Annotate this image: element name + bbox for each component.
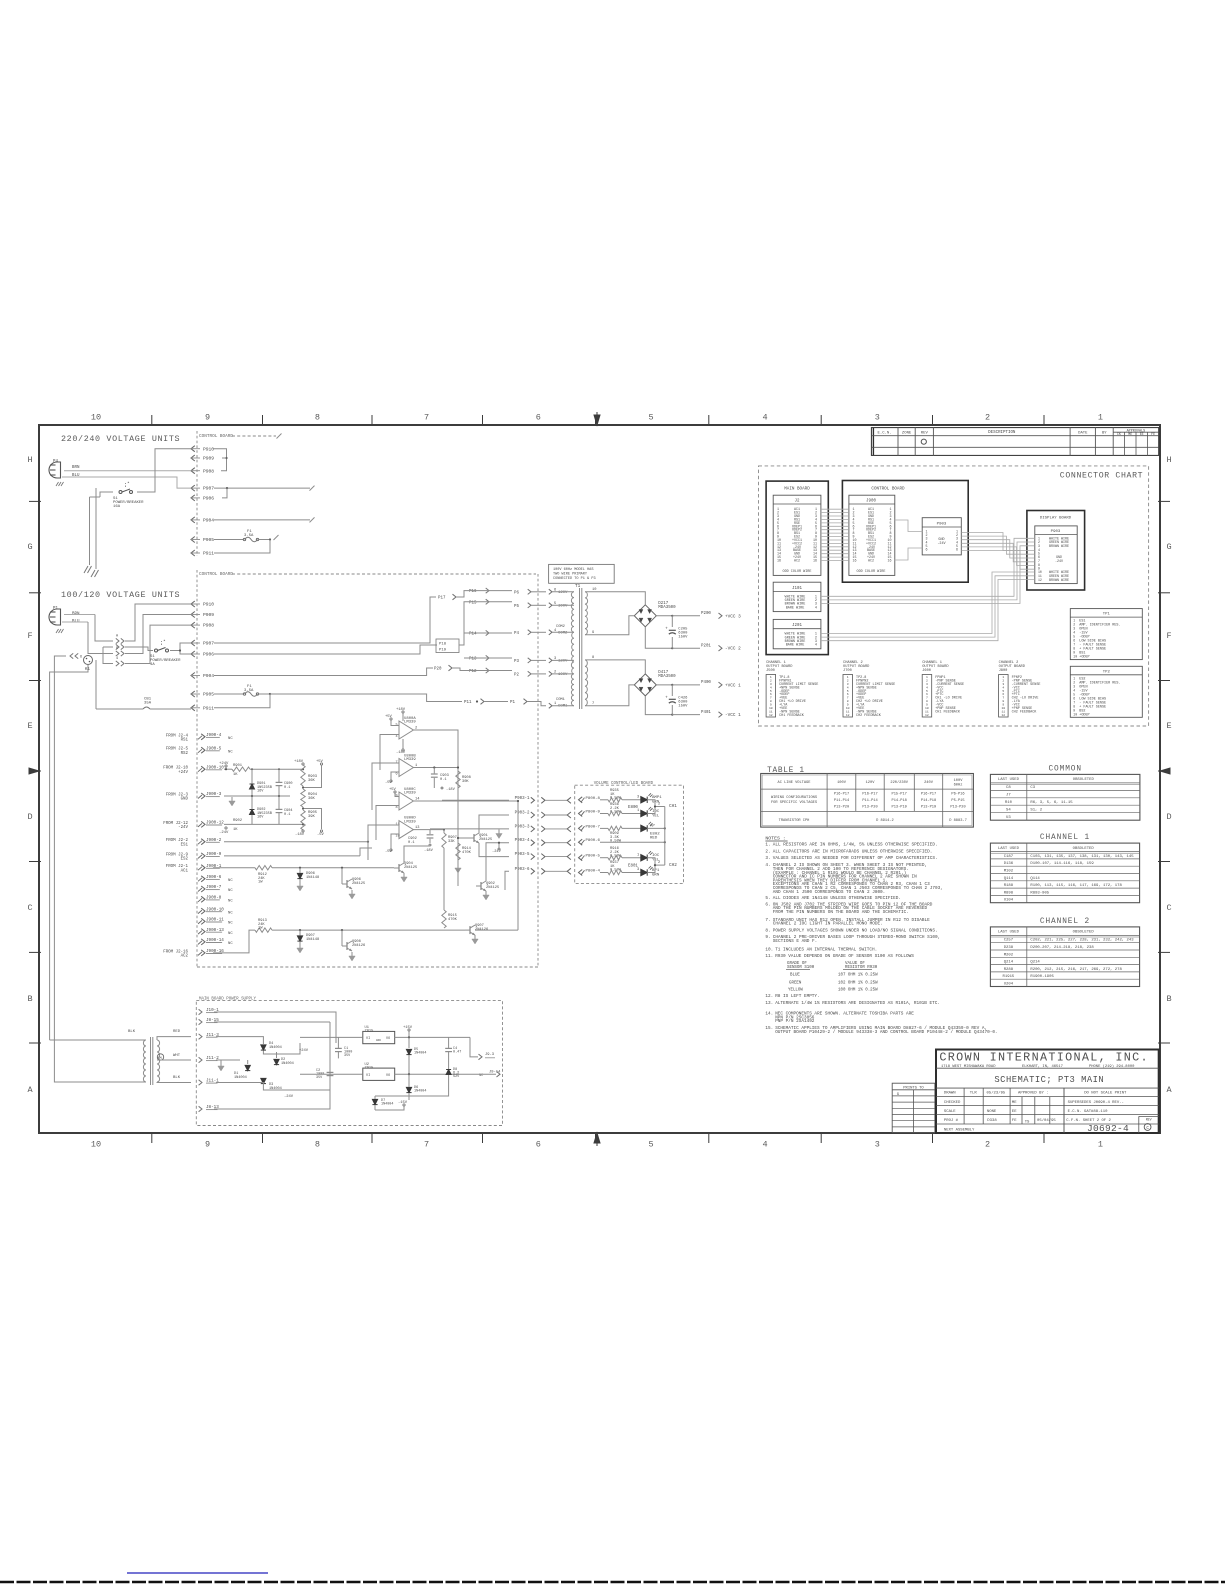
svg-text:GND: GND bbox=[181, 798, 189, 802]
svg-text:P13-P20: P13-P20 bbox=[862, 805, 877, 809]
svg-text:2N4125: 2N4125 bbox=[486, 886, 499, 890]
svg-text:CH1: CH1 bbox=[669, 804, 677, 809]
svg-text:AC LINE VOLTAGE: AC LINE VOLTAGE bbox=[778, 781, 811, 785]
svg-text:3: 3 bbox=[875, 1140, 880, 1150]
svg-text:3: 3 bbox=[637, 796, 639, 800]
svg-text:C: C bbox=[27, 903, 32, 913]
svg-text:LM339: LM339 bbox=[404, 721, 416, 725]
svg-text:35A: 35A bbox=[144, 702, 152, 706]
svg-text:APPROVED BY :: APPROVED BY : bbox=[1018, 1092, 1048, 1096]
svg-text:P907: P907 bbox=[203, 641, 214, 647]
svg-text:M102: M102 bbox=[1004, 870, 1014, 874]
svg-text:7: 7 bbox=[592, 702, 594, 706]
svg-text:YEL: YEL bbox=[652, 815, 660, 819]
svg-text:P13-P19: P13-P19 bbox=[892, 805, 907, 809]
svg-text:REV: REV bbox=[1146, 1118, 1152, 1122]
svg-text:ALTERNATE 1/4W 1% RESISTORS AR: ALTERNATE 1/4W 1% RESISTORS ARE DESIGNAT… bbox=[775, 1001, 940, 1006]
svg-text:G: G bbox=[1166, 542, 1171, 552]
svg-text:1N4004: 1N4004 bbox=[281, 1062, 294, 1066]
svg-text:+24V: +24V bbox=[219, 762, 229, 766]
svg-text:8: 8 bbox=[315, 1140, 320, 1150]
svg-text:R100, 113, 115, 116, 117, 169,: R100, 113, 115, 116, 117, 169, 172, 178 bbox=[1030, 884, 1122, 888]
svg-text:35V: 35V bbox=[344, 1054, 351, 1058]
svg-text:CROWN INTERNATIONAL, INC.: CROWN INTERNATIONAL, INC. bbox=[939, 1051, 1148, 1065]
svg-text:TP1: TP1 bbox=[1103, 613, 1111, 617]
svg-text:VO: VO bbox=[386, 1037, 390, 1041]
svg-text:G: G bbox=[27, 542, 32, 552]
svg-text:16A: 16A bbox=[113, 505, 121, 509]
svg-text:+ODEP: +ODEP bbox=[1079, 713, 1089, 717]
svg-text:1N4148: 1N4148 bbox=[306, 876, 319, 880]
svg-text:12: 12 bbox=[925, 713, 929, 717]
svg-text:P16-P17: P16-P17 bbox=[921, 793, 936, 797]
svg-text:D 8914-2: D 8914-2 bbox=[876, 819, 894, 823]
svg-text:LAST USED: LAST USED bbox=[998, 931, 1020, 935]
svg-text:P20: P20 bbox=[434, 668, 442, 672]
svg-text:BARE WIRE: BARE WIRE bbox=[786, 606, 805, 610]
svg-text:WIRING CONFIGURATIONS: WIRING CONFIGURATIONS bbox=[771, 796, 818, 800]
svg-text:33K: 33K bbox=[448, 840, 455, 844]
svg-text:T1 INCLUDES AN INTERNAL THERMA: T1 INCLUDES AN INTERNAL THERMAL SWITCH. bbox=[775, 948, 877, 953]
svg-text:ES1: ES1 bbox=[181, 843, 189, 847]
svg-text:P17: P17 bbox=[438, 597, 446, 601]
svg-text:100 OHM 1% 0.25W: 100 OHM 1% 0.25W bbox=[838, 989, 878, 993]
svg-text:1: 1 bbox=[1098, 1140, 1103, 1150]
svg-text:U204: U204 bbox=[1004, 983, 1014, 987]
svg-text:VOLUME CONTROL/LED BOARD: VOLUME CONTROL/LED BOARD bbox=[594, 781, 654, 786]
svg-text:1: 1 bbox=[1098, 413, 1103, 423]
svg-text:SUPERSEDES J0690-4 REV.-: SUPERSEDES J0690-4 REV.- bbox=[1068, 1101, 1124, 1105]
svg-text:P2: P2 bbox=[514, 673, 519, 677]
svg-text:P6: P6 bbox=[514, 591, 519, 595]
svg-text:36K: 36K bbox=[308, 779, 316, 783]
svg-text:150V: 150V bbox=[678, 636, 688, 640]
svg-text:P16-P17: P16-P17 bbox=[834, 793, 849, 797]
svg-text:E: E bbox=[27, 721, 32, 731]
svg-text:D200-207, 214-218, 218, 238: D200-207, 214-218, 218, 238 bbox=[1030, 946, 1094, 950]
svg-text:SCALE: SCALE bbox=[944, 1110, 956, 1114]
svg-text:P904: P904 bbox=[203, 673, 214, 679]
svg-text:+VCC 3: +VCC 3 bbox=[725, 614, 741, 619]
svg-text:BROWN WIRE: BROWN WIRE bbox=[1049, 578, 1069, 582]
svg-text:120V: 120V bbox=[866, 781, 876, 785]
svg-text:12: 12 bbox=[769, 713, 773, 717]
svg-text:-24V: -24V bbox=[178, 826, 188, 830]
svg-text:35V: 35V bbox=[316, 1076, 323, 1080]
svg-text:CH1 FEEDBACK: CH1 FEEDBACK bbox=[779, 714, 805, 718]
svg-text:BLK: BLK bbox=[173, 1076, 181, 1080]
svg-text:-5V: -5V bbox=[317, 833, 325, 837]
svg-text:*: * bbox=[127, 481, 130, 487]
svg-text:Q214: Q214 bbox=[1030, 961, 1040, 965]
svg-text:P903-3: P903-3 bbox=[515, 825, 530, 829]
svg-text:P16-P17: P16-P17 bbox=[862, 793, 877, 797]
svg-text:CHANNEL 2: CHANNEL 2 bbox=[1040, 918, 1090, 926]
svg-text:3.: 3. bbox=[765, 856, 770, 861]
svg-text:AC2: AC2 bbox=[868, 559, 874, 563]
svg-text:P906: P906 bbox=[203, 496, 214, 502]
svg-text:NOTES :: NOTES : bbox=[765, 836, 785, 842]
svg-text:LM339: LM339 bbox=[404, 792, 416, 796]
svg-text:7815: 7815 bbox=[365, 1030, 374, 1034]
svg-text:0.1: 0.1 bbox=[408, 841, 415, 845]
svg-text:39K: 39K bbox=[308, 815, 316, 819]
svg-text:CH2 FEEDBACK: CH2 FEEDBACK bbox=[1012, 711, 1038, 715]
svg-text:NC: NC bbox=[228, 932, 233, 936]
svg-text:-18V: -18V bbox=[424, 849, 434, 853]
svg-text:MDA3500: MDA3500 bbox=[658, 606, 676, 610]
svg-text:NONE: NONE bbox=[987, 1110, 997, 1114]
svg-text:5: 5 bbox=[648, 413, 653, 423]
svg-text:F: F bbox=[27, 631, 32, 641]
svg-text:P13-P19: P13-P19 bbox=[921, 805, 936, 809]
svg-text:FOR SPECIFIC VOLTAGES: FOR SPECIFIC VOLTAGES bbox=[771, 801, 818, 805]
svg-text:2N4126: 2N4126 bbox=[352, 944, 365, 948]
svg-text:P909: P909 bbox=[203, 456, 214, 462]
svg-text:8.: 8. bbox=[765, 928, 770, 933]
svg-text:CONNECTED TO P1 & P3: CONNECTED TO P1 & P3 bbox=[553, 577, 596, 581]
svg-text:P6-P16: P6-P16 bbox=[951, 793, 964, 797]
svg-text:1K: 1K bbox=[233, 773, 238, 777]
svg-text:BROWN WIRE: BROWN WIRE bbox=[1049, 544, 1069, 548]
svg-text:AC2: AC2 bbox=[181, 955, 189, 959]
svg-text:P5: P5 bbox=[514, 605, 519, 609]
svg-text:TWO WIRE PRIMARY: TWO WIRE PRIMARY bbox=[553, 573, 588, 577]
svg-text:OBSOLETED: OBSOLETED bbox=[1073, 931, 1095, 935]
svg-text:CHANNEL 2 IOC LIGHT IN PARALLE: CHANNEL 2 IOC LIGHT IN PARALLEL MONO MOD… bbox=[773, 922, 883, 927]
svg-text:470K: 470K bbox=[448, 918, 458, 922]
svg-text:P910: P910 bbox=[203, 446, 214, 452]
svg-text:7: 7 bbox=[424, 1140, 429, 1150]
svg-text:60Hz: 60Hz bbox=[954, 784, 963, 788]
svg-text:10: 10 bbox=[91, 1140, 101, 1150]
svg-text:PROJ #: PROJ # bbox=[944, 1119, 959, 1123]
svg-text:13.: 13. bbox=[765, 1001, 773, 1006]
svg-text:2N4125: 2N4125 bbox=[404, 866, 417, 870]
svg-text:P4: P4 bbox=[514, 632, 519, 636]
svg-text:ALL RESISTORS ARE IN OHMS, 1/4: ALL RESISTORS ARE IN OHMS, 1/4W, 5% UNLE… bbox=[773, 843, 938, 848]
svg-text:D238: D238 bbox=[1004, 946, 1014, 950]
svg-text:3: 3 bbox=[637, 868, 639, 872]
svg-text:OUTPUT BOARD P10429-2 / MODULE: OUTPUT BOARD P10429-2 / MODULE 943338-3 … bbox=[775, 1030, 997, 1035]
svg-text:R6, 3, 5, 6, 11-15: R6, 3, 5, 6, 11-15 bbox=[1030, 801, 1073, 805]
svg-text:0.1: 0.1 bbox=[284, 813, 290, 817]
svg-text:E801: E801 bbox=[628, 865, 638, 869]
svg-text:P903-1: P903-1 bbox=[515, 797, 530, 801]
svg-text:CONTROL BOARD: CONTROL BOARD bbox=[199, 434, 233, 439]
svg-text:NC: NC bbox=[228, 922, 233, 926]
svg-text:TRANSISTOR CPH: TRANSISTOR CPH bbox=[779, 819, 810, 823]
svg-text:EE: EE bbox=[1012, 1110, 1017, 1114]
svg-text:S4: S4 bbox=[1006, 809, 1011, 813]
svg-text:COM1: COM1 bbox=[556, 698, 566, 702]
svg-text:P3: P3 bbox=[514, 660, 519, 664]
svg-text:R893-905: R893-905 bbox=[1030, 891, 1049, 895]
svg-text:14.: 14. bbox=[765, 1012, 773, 1017]
svg-text:P905: P905 bbox=[203, 692, 214, 698]
svg-text:U104: U104 bbox=[1004, 899, 1014, 903]
svg-text:P800-7: P800-7 bbox=[586, 825, 601, 829]
svg-text:P200: P200 bbox=[701, 612, 711, 616]
svg-text:R8 IS LEFT EMPTY.: R8 IS LEFT EMPTY. bbox=[775, 994, 819, 999]
svg-text:C3: C3 bbox=[1030, 786, 1035, 790]
svg-text:E: E bbox=[1166, 721, 1171, 731]
svg-text:ODD COLOR WIRE: ODD COLOR WIRE bbox=[783, 570, 812, 574]
svg-text:R898: R898 bbox=[1004, 891, 1014, 895]
svg-text:1.: 1. bbox=[765, 843, 770, 848]
svg-text:P800-5: P800-5 bbox=[586, 855, 601, 859]
svg-text:P201: P201 bbox=[701, 644, 711, 648]
svg-text:8: 8 bbox=[396, 806, 398, 810]
svg-text:100V: 100V bbox=[954, 779, 964, 783]
svg-text:30K: 30K bbox=[462, 780, 469, 784]
svg-text:H: H bbox=[1166, 455, 1171, 465]
svg-text:10.: 10. bbox=[765, 948, 773, 953]
svg-text:RED: RED bbox=[650, 837, 658, 841]
svg-text:J700: J700 bbox=[843, 669, 852, 673]
svg-text:0.1: 0.1 bbox=[440, 778, 447, 782]
svg-text:OBSOLETED: OBSOLETED bbox=[1073, 847, 1095, 851]
svg-text:P904: P904 bbox=[203, 518, 214, 524]
svg-text:BRN: BRN bbox=[72, 466, 80, 470]
svg-text:9: 9 bbox=[205, 413, 210, 423]
svg-text:470K: 470K bbox=[462, 851, 472, 855]
svg-text:E.C.N.: E.C.N. bbox=[878, 431, 892, 435]
svg-text:P907: P907 bbox=[203, 486, 214, 492]
svg-text:P15-P17: P15-P17 bbox=[892, 793, 907, 797]
svg-text:9: 9 bbox=[205, 1140, 210, 1150]
svg-text:ODD COLOR WIRE: ODD COLOR WIRE bbox=[857, 570, 886, 574]
svg-text:9.: 9. bbox=[765, 935, 770, 940]
svg-text:J900: J900 bbox=[866, 500, 876, 504]
svg-text:16: 16 bbox=[813, 559, 817, 563]
svg-text:1N4148: 1N4148 bbox=[306, 938, 319, 942]
svg-text:-18V: -18V bbox=[446, 788, 456, 792]
svg-text:P800-4: P800-4 bbox=[586, 870, 601, 874]
svg-text:16: 16 bbox=[777, 559, 781, 563]
svg-text:J201: J201 bbox=[792, 624, 802, 628]
svg-text:P401: P401 bbox=[701, 711, 711, 715]
svg-text:R901: R901 bbox=[233, 764, 243, 768]
svg-text:P11: P11 bbox=[464, 701, 472, 705]
svg-text:LM339: LM339 bbox=[404, 758, 416, 762]
svg-text:4A: 4A bbox=[150, 663, 155, 667]
svg-text:C257: C257 bbox=[1004, 939, 1014, 943]
svg-text:NEXT ASSEMBLY: NEXT ASSEMBLY bbox=[944, 1129, 975, 1133]
svg-text:CONNECTOR CHART: CONNECTOR CHART bbox=[1060, 472, 1143, 481]
svg-text:6: 6 bbox=[396, 773, 398, 777]
svg-text:C202, 221, 225, 227, 228, 231,: C202, 221, 225, 227, 228, 231, 232, 242,… bbox=[1030, 939, 1134, 943]
svg-text:RESISTOR R930: RESISTOR R930 bbox=[845, 966, 878, 970]
svg-text:P13-P20: P13-P20 bbox=[950, 805, 965, 809]
svg-text:102 OHM 1% 0.25W: 102 OHM 1% 0.25W bbox=[838, 981, 878, 985]
svg-text:WHT: WHT bbox=[173, 1054, 181, 1058]
svg-text:0.47: 0.47 bbox=[453, 1051, 461, 1055]
svg-text:0.1: 0.1 bbox=[284, 786, 290, 790]
svg-text:FE: FE bbox=[1151, 432, 1155, 436]
svg-text:SCHEMATIC; PT3 MAIN: SCHEMATIC; PT3 MAIN bbox=[994, 1075, 1104, 1085]
svg-text:J9-3: J9-3 bbox=[485, 1053, 495, 1057]
svg-text:B: B bbox=[27, 994, 32, 1004]
svg-text:DO NOT SCALE PRINT: DO NOT SCALE PRINT bbox=[1084, 1092, 1127, 1096]
svg-text:MAIN BOARD POWER SUPPLY: MAIN BOARD POWER SUPPLY bbox=[199, 998, 256, 1002]
svg-text:*: * bbox=[163, 639, 166, 645]
svg-text:6: 6 bbox=[536, 1140, 541, 1150]
svg-text:LM339: LM339 bbox=[404, 820, 416, 824]
svg-text:+VCC 1: +VCC 1 bbox=[725, 683, 741, 688]
svg-text:220/240 VOLTAGE UNITS: 220/240 VOLTAGE UNITS bbox=[61, 434, 180, 444]
svg-text:J2: J2 bbox=[795, 500, 800, 504]
svg-text:R10: R10 bbox=[1005, 801, 1013, 805]
svg-text:2N4126: 2N4126 bbox=[475, 928, 488, 932]
svg-text:6.: 6. bbox=[765, 902, 770, 907]
svg-text:P903: P903 bbox=[1051, 530, 1061, 534]
svg-text:P18: P18 bbox=[439, 643, 447, 647]
svg-text:P400: P400 bbox=[701, 681, 711, 685]
svg-text:COM2: COM2 bbox=[556, 625, 565, 629]
svg-text:12: 12 bbox=[1001, 713, 1005, 717]
svg-text:BLUE: BLUE bbox=[790, 974, 800, 978]
svg-text:P905: P905 bbox=[203, 537, 214, 543]
svg-text:NC: NC bbox=[228, 911, 233, 915]
svg-text:NC: NC bbox=[228, 879, 233, 883]
svg-text:D: D bbox=[27, 812, 32, 822]
svg-text:05/04/95: 05/04/95 bbox=[1037, 1118, 1056, 1123]
svg-text:P800-6: P800-6 bbox=[586, 839, 601, 843]
svg-text:VI: VI bbox=[366, 1037, 370, 1041]
svg-text:P19: P19 bbox=[439, 649, 447, 653]
svg-text:CH2 FEEDBACK: CH2 FEEDBACK bbox=[856, 714, 882, 718]
svg-text:FE: FE bbox=[1012, 1119, 1017, 1123]
svg-text:J101: J101 bbox=[792, 587, 802, 591]
svg-text:D 8883-7: D 8883-7 bbox=[949, 819, 967, 823]
svg-text:-18V: -18V bbox=[396, 751, 406, 755]
svg-text:CONTROL BOARD: CONTROL BOARD bbox=[871, 487, 905, 492]
svg-text:P800-9: P800-9 bbox=[586, 811, 601, 815]
svg-text:BLK: BLK bbox=[128, 1030, 136, 1034]
svg-text:DATE: DATE bbox=[1078, 431, 1088, 435]
svg-text:NC: NC bbox=[228, 750, 233, 754]
svg-text:R1900-1905: R1900-1905 bbox=[1030, 975, 1054, 979]
svg-text:J500: J500 bbox=[766, 669, 775, 673]
svg-text:ME: ME bbox=[1012, 1101, 1017, 1105]
svg-text:D338: D338 bbox=[987, 1119, 997, 1123]
svg-text:7.: 7. bbox=[765, 918, 770, 923]
svg-text:LAST USED: LAST USED bbox=[998, 778, 1020, 782]
svg-text:Q114: Q114 bbox=[1004, 877, 1014, 881]
svg-text:Q214: Q214 bbox=[1004, 961, 1014, 965]
svg-text:1N4004: 1N4004 bbox=[414, 1090, 426, 1094]
svg-text:LAST USED: LAST USED bbox=[998, 847, 1020, 851]
svg-text:2: 2 bbox=[985, 1140, 990, 1150]
svg-text:P908: P908 bbox=[203, 468, 214, 474]
svg-text:VO: VO bbox=[386, 1074, 390, 1078]
svg-text:GND: GND bbox=[376, 1039, 381, 1042]
svg-text:AC1: AC1 bbox=[181, 869, 189, 873]
svg-text:P14-P18: P14-P18 bbox=[892, 799, 907, 803]
svg-text:240V: 240V bbox=[924, 781, 934, 785]
svg-text:VALUES SELECTED AS NEEDED FOR: VALUES SELECTED AS NEEDED FOR DIFFERENT … bbox=[773, 856, 938, 861]
svg-text:A: A bbox=[27, 1085, 33, 1095]
svg-text:E800: E800 bbox=[628, 806, 638, 810]
svg-text:220/230V: 220/230V bbox=[890, 780, 908, 785]
svg-text:P903-6: P903-6 bbox=[515, 868, 530, 872]
svg-text:ALL DIODES ARE 1N4148 UNLESS O: ALL DIODES ARE 1N4148 UNLESS OTHERWISE S… bbox=[773, 896, 901, 901]
svg-text:Q114: Q114 bbox=[1030, 877, 1040, 881]
svg-text:2N4125: 2N4125 bbox=[479, 838, 492, 842]
svg-text:P13-P20: P13-P20 bbox=[834, 805, 849, 809]
svg-text:-18V: -18V bbox=[295, 833, 305, 837]
svg-text:2: 2 bbox=[658, 803, 660, 807]
svg-text:2.: 2. bbox=[765, 849, 770, 854]
svg-text:ME: ME bbox=[1128, 432, 1132, 436]
svg-text:DISPLAY BOARD: DISPLAY BOARD bbox=[1040, 516, 1072, 520]
svg-text:CK: CK bbox=[1117, 432, 1121, 436]
svg-text:+24V: +24V bbox=[178, 771, 188, 775]
svg-text:-24V: -24V bbox=[284, 1095, 294, 1099]
svg-text:1N4004: 1N4004 bbox=[414, 1052, 426, 1056]
svg-text:10: 10 bbox=[1073, 712, 1077, 716]
svg-text:ALL CAPACITORS ARE IN MICROFAR: ALL CAPACITORS ARE IN MICROFARADS UNLESS… bbox=[773, 849, 933, 854]
svg-text:AC2: AC2 bbox=[794, 559, 800, 563]
svg-text:R1915: R1915 bbox=[1003, 975, 1015, 979]
svg-text:SECTIONS E AND F.: SECTIONS E AND F. bbox=[773, 939, 817, 944]
svg-text:BY: BY bbox=[1102, 431, 1107, 435]
svg-text:A: A bbox=[1166, 1085, 1172, 1095]
svg-text:E.C.N. GAT#88-110: E.C.N. GAT#88-110 bbox=[1068, 1110, 1109, 1114]
svg-text:100V: 100V bbox=[837, 781, 847, 785]
svg-text:P903: P903 bbox=[937, 523, 947, 527]
svg-text:05/23/95: 05/23/95 bbox=[987, 1091, 1006, 1096]
svg-text:100V 60Hz MODEL HAS: 100V 60Hz MODEL HAS bbox=[553, 568, 593, 572]
svg-text:100/120 VOLTAGE UNITS: 100/120 VOLTAGE UNITS bbox=[61, 590, 180, 600]
svg-text:4: 4 bbox=[815, 644, 817, 648]
svg-text:4: 4 bbox=[815, 606, 817, 610]
svg-text:R902: R902 bbox=[233, 819, 242, 823]
svg-text:TS: TS bbox=[1025, 1120, 1030, 1124]
svg-text:P11-P14: P11-P14 bbox=[862, 799, 878, 803]
svg-text:4: 4 bbox=[762, 413, 767, 423]
svg-text:2: 2 bbox=[658, 861, 660, 865]
svg-text:RS1: RS1 bbox=[181, 739, 189, 743]
svg-text:J600: J600 bbox=[922, 669, 931, 673]
svg-text:S2V: S2V bbox=[453, 1075, 460, 1079]
svg-text:BARE WIRE: BARE WIRE bbox=[786, 644, 805, 648]
svg-text:TP2: TP2 bbox=[1103, 670, 1111, 674]
svg-text:6: 6 bbox=[536, 413, 541, 423]
svg-text:1N4004: 1N4004 bbox=[269, 1046, 282, 1050]
svg-text:4: 4 bbox=[396, 735, 398, 739]
svg-text:-VCC 2: -VCC 2 bbox=[725, 647, 741, 652]
svg-text:P909: P909 bbox=[203, 612, 214, 618]
svg-text:2: 2 bbox=[985, 413, 990, 423]
svg-text:C: C bbox=[1166, 903, 1171, 913]
svg-text:CH2: CH2 bbox=[669, 863, 677, 868]
svg-text:D100-107, 114-116, 118, 159: D100-107, 114-116, 118, 159 bbox=[1030, 862, 1094, 866]
svg-text:H: H bbox=[27, 455, 32, 465]
svg-text:8: 8 bbox=[592, 656, 594, 660]
svg-text:OBSOLETED: OBSOLETED bbox=[1073, 778, 1095, 782]
svg-text:-24V: -24V bbox=[937, 542, 946, 546]
svg-text:J0692-4: J0692-4 bbox=[1087, 1123, 1129, 1134]
svg-text:107 OHM 1% 0.25W: 107 OHM 1% 0.25W bbox=[838, 974, 878, 978]
svg-text:R930 VALUE DEPENDS ON GRADE OF: R930 VALUE DEPENDS ON GRADE OF SENSOR S1… bbox=[775, 954, 914, 959]
svg-text:P11-P14: P11-P14 bbox=[834, 799, 850, 803]
svg-text:PNP P/N 2SA1492: PNP P/N 2SA1492 bbox=[775, 1019, 815, 1024]
svg-text:12: 12 bbox=[846, 713, 850, 717]
svg-text:RED: RED bbox=[173, 1030, 181, 1034]
svg-text:P911: P911 bbox=[203, 551, 214, 557]
